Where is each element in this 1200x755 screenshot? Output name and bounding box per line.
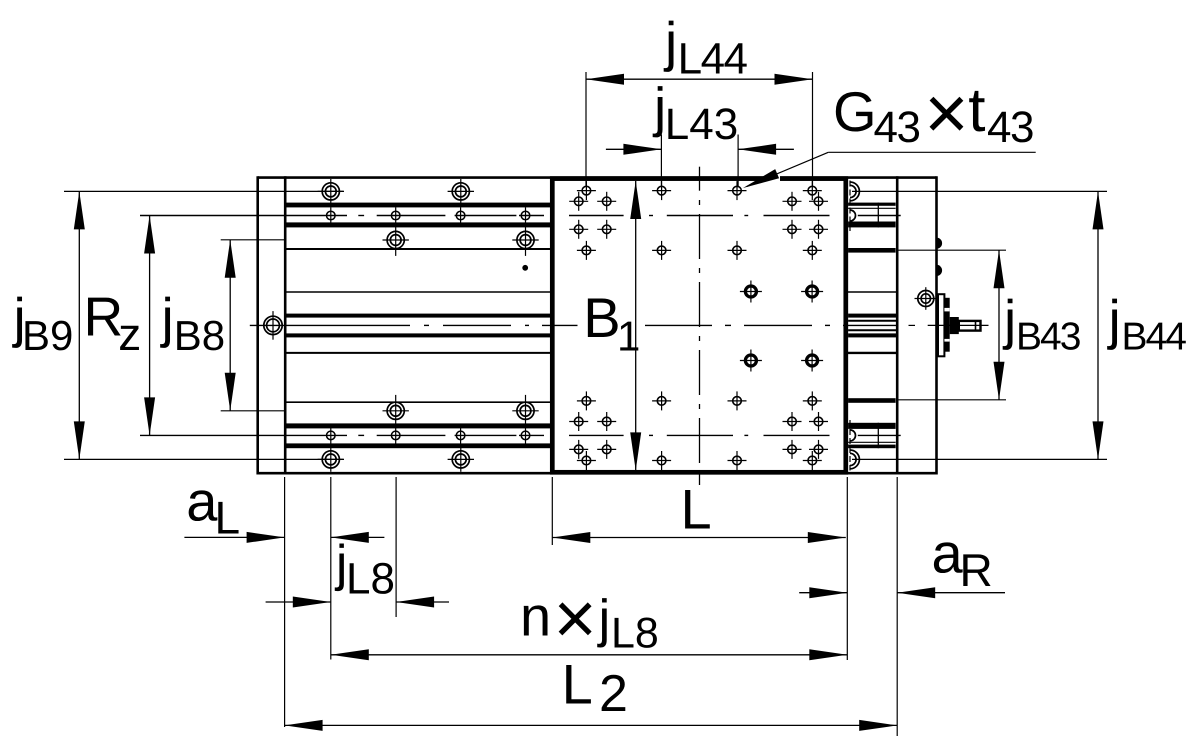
end face bolt bottom small [850, 430, 856, 441]
svg-text:j: j [1002, 289, 1016, 351]
carriage hole (812,191) [803, 181, 822, 200]
carriage ring hole (751,360) [740, 350, 762, 372]
right end block edge [935, 176, 938, 474]
carriage hole (586,460) [577, 451, 596, 470]
dim L [552, 532, 846, 543]
svg-text:B: B [583, 286, 620, 349]
block bump lower [937, 265, 943, 276]
leader G43 edge gap [767, 175, 781, 183]
svg-text:L44: L44 [678, 35, 748, 84]
ext line x284.6 [284, 477, 286, 727]
carriage hole (586,250) [577, 241, 596, 260]
svg-text:j: j [597, 590, 611, 649]
body line y249 [285, 248, 550, 250]
carriage hole (737,460) [728, 451, 747, 470]
left end plate screw [264, 311, 282, 340]
body line y353 [285, 352, 550, 354]
ext line x330.8 [330, 477, 332, 660]
right stripe y400 thick [848, 398, 896, 403]
rail screw T1b [448, 179, 474, 207]
rail screw T1a [318, 179, 344, 207]
svg-text:B43: B43 [1016, 316, 1080, 359]
body line y402 [285, 401, 550, 403]
end face bolt bottom large [850, 450, 859, 469]
dim jL8 [266, 597, 449, 608]
rail hole bottom 1 [327, 427, 336, 443]
motor flange plate [938, 294, 944, 356]
right center stripes [848, 314, 897, 338]
svg-text:j: j [160, 287, 174, 349]
carriage hole (579,201) [569, 192, 588, 211]
rail band bottom-1 [285, 443, 550, 448]
carriage vertical centerline [699, 167, 701, 485]
carriage hole (662,460) [652, 451, 671, 470]
svg-text:×: × [924, 71, 968, 156]
dim aR [799, 587, 1005, 598]
rail screw T2a [383, 227, 409, 256]
carriage hole (792,449) [783, 440, 802, 459]
svg-text:B44: B44 [1122, 316, 1187, 359]
carriage hole (737,191) [728, 181, 747, 200]
carriage hole (586,191) [577, 181, 596, 200]
carriage ring hole (812,292) [801, 281, 823, 303]
dim jL43 extension lines [661, 135, 738, 187]
carriage hole (818,422) [809, 412, 828, 431]
center band lower [285, 333, 550, 337]
left end plate [258, 176, 286, 474]
label n x jL8 [520, 577, 659, 660]
carriage hole (586,401) [577, 391, 596, 410]
rail hole bottom 4 [521, 427, 530, 443]
svg-text:2: 2 [599, 665, 628, 723]
rail hole top 4 [521, 207, 530, 223]
carriage hole (818,449) [809, 440, 828, 459]
dim jB8 extension lines [221, 240, 285, 411]
dim jB9 extension lines [64, 191, 344, 459]
shaft centerline [909, 324, 989, 326]
leader G43 line [743, 152, 828, 188]
right stripes top [848, 203, 896, 228]
rail screw B1b [448, 444, 474, 472]
dim jB44 line [1093, 191, 1104, 459]
svg-text:L: L [562, 652, 593, 715]
carriage ring hole (812,360) [801, 350, 823, 372]
label G43xt43 [833, 71, 1033, 156]
svg-text:B8: B8 [174, 312, 225, 359]
svg-text:L: L [681, 478, 712, 541]
rail band top-1 [285, 203, 550, 208]
dim Rz line [144, 216, 155, 436]
carriage hole (737,250) [728, 241, 747, 260]
carriage hole (607,229) [597, 220, 616, 239]
svg-text:×: × [554, 577, 597, 660]
label L [681, 478, 712, 541]
motor hub [950, 317, 959, 334]
carriage hole (579,422) [569, 412, 588, 431]
carriage hole (607,422) [597, 412, 616, 431]
ext line x897 [896, 477, 898, 736]
ext line x396.1 [395, 477, 397, 617]
svg-text:B9: B9 [22, 312, 73, 359]
carriage hole (607,449) [597, 440, 616, 459]
carriage hole (662,191) [652, 181, 671, 200]
carriage hole (812,460) [803, 451, 822, 470]
svg-text:1: 1 [617, 313, 640, 360]
carriage hole (737,401) [728, 391, 747, 410]
label aL [186, 469, 240, 543]
block bump upper [937, 238, 943, 249]
rail band bottom-2 [285, 423, 550, 428]
label jL43 [652, 76, 738, 149]
svg-text:G: G [833, 80, 877, 143]
carriage hole (662,250) [652, 241, 671, 260]
rail band top-2 [285, 222, 550, 227]
ext line x552 (carriage left) [551, 477, 553, 545]
rail hole top 3 [456, 207, 465, 223]
label jB8 [160, 287, 226, 360]
right stripes bottom [848, 423, 896, 448]
label B1 [583, 286, 640, 360]
dim jB43 extension lines [898, 250, 1006, 400]
carriage hole (812,250) [803, 241, 822, 260]
svg-text:L43: L43 [665, 100, 738, 149]
dim n x jL8 [331, 649, 848, 660]
dim jL44 extension lines [586, 72, 813, 186]
right line y292 [846, 291, 897, 293]
svg-text:a: a [186, 469, 218, 532]
dim jL43 line [606, 144, 794, 155]
main centerline [250, 324, 898, 326]
end face bolt centerline [849, 181, 851, 471]
rail screw B2a [383, 395, 409, 424]
rail hole top 1 [327, 207, 336, 223]
dim jB44 extension lines [852, 191, 1107, 459]
label jL8 [334, 535, 395, 604]
label aR [932, 522, 993, 597]
rail centerline top [140, 215, 901, 217]
rail screw T2b [512, 227, 538, 256]
rail screw B2b [512, 395, 538, 424]
dim aL [184, 532, 384, 543]
carriage hole (818,201) [809, 192, 828, 211]
label Rz [84, 286, 142, 361]
right line y353 [846, 352, 897, 354]
motor flange ears [944, 298, 949, 352]
dim jB8 line [225, 240, 236, 411]
svg-text:z: z [118, 308, 141, 360]
rail hole top 2 [391, 207, 400, 223]
carriage hole (662,401) [652, 391, 671, 410]
small port dot [523, 265, 528, 270]
rail hole bottom 3 [456, 427, 465, 443]
ext line x847 (carriage right) [846, 477, 848, 660]
carriage hole (579,449) [569, 440, 588, 459]
svg-text:R: R [960, 544, 993, 596]
dim jB43 line [994, 250, 1005, 400]
end face bolt top large [850, 182, 859, 201]
svg-text:t: t [968, 76, 985, 145]
leader G43 underline [828, 151, 1035, 153]
linear module body outline (top and bottom edges) [258, 178, 937, 474]
carriage hole (792,201) [783, 192, 802, 211]
end face bolt top small [850, 210, 856, 221]
carriage outline [552, 179, 846, 473]
dim jL44 line [586, 74, 813, 85]
center band upper [285, 314, 550, 318]
svg-text:L8: L8 [611, 610, 659, 658]
carriage hole (607,201) [597, 192, 616, 211]
dim jB9 line [74, 191, 85, 459]
carriage hole (818,229) [809, 220, 828, 239]
svg-text:L: L [215, 492, 241, 544]
svg-text:43: 43 [874, 103, 920, 152]
dim B1 line [630, 181, 641, 470]
rail centerline bottom [140, 434, 901, 436]
label jL44 [663, 10, 748, 83]
carriage hole (792,229) [783, 220, 802, 239]
carriage ring hole (751,292) [740, 281, 762, 303]
right column verticals [896, 176, 899, 474]
block screw [915, 287, 938, 310]
carriage hole (812,401) [803, 391, 822, 410]
rail hole bottom 2 [391, 427, 400, 443]
label jB43 [1002, 289, 1080, 359]
label jB44 [1107, 289, 1187, 359]
svg-text:n: n [520, 585, 551, 648]
svg-text:j: j [663, 10, 677, 72]
svg-text:43: 43 [987, 103, 1033, 152]
carriage hole (792,422) [783, 412, 802, 431]
label jB9 [12, 287, 74, 360]
right stripe y250 thick [848, 248, 896, 253]
svg-text:L8: L8 [346, 555, 395, 604]
dim L2 [285, 720, 898, 731]
carriage hole (579,229) [569, 220, 588, 239]
right column divider segments [877, 203, 879, 449]
body line y292 [285, 291, 550, 293]
svg-text:j: j [1107, 289, 1121, 351]
label L2 [562, 652, 628, 723]
rail screw B1a [318, 444, 344, 472]
motor shaft [959, 320, 981, 331]
